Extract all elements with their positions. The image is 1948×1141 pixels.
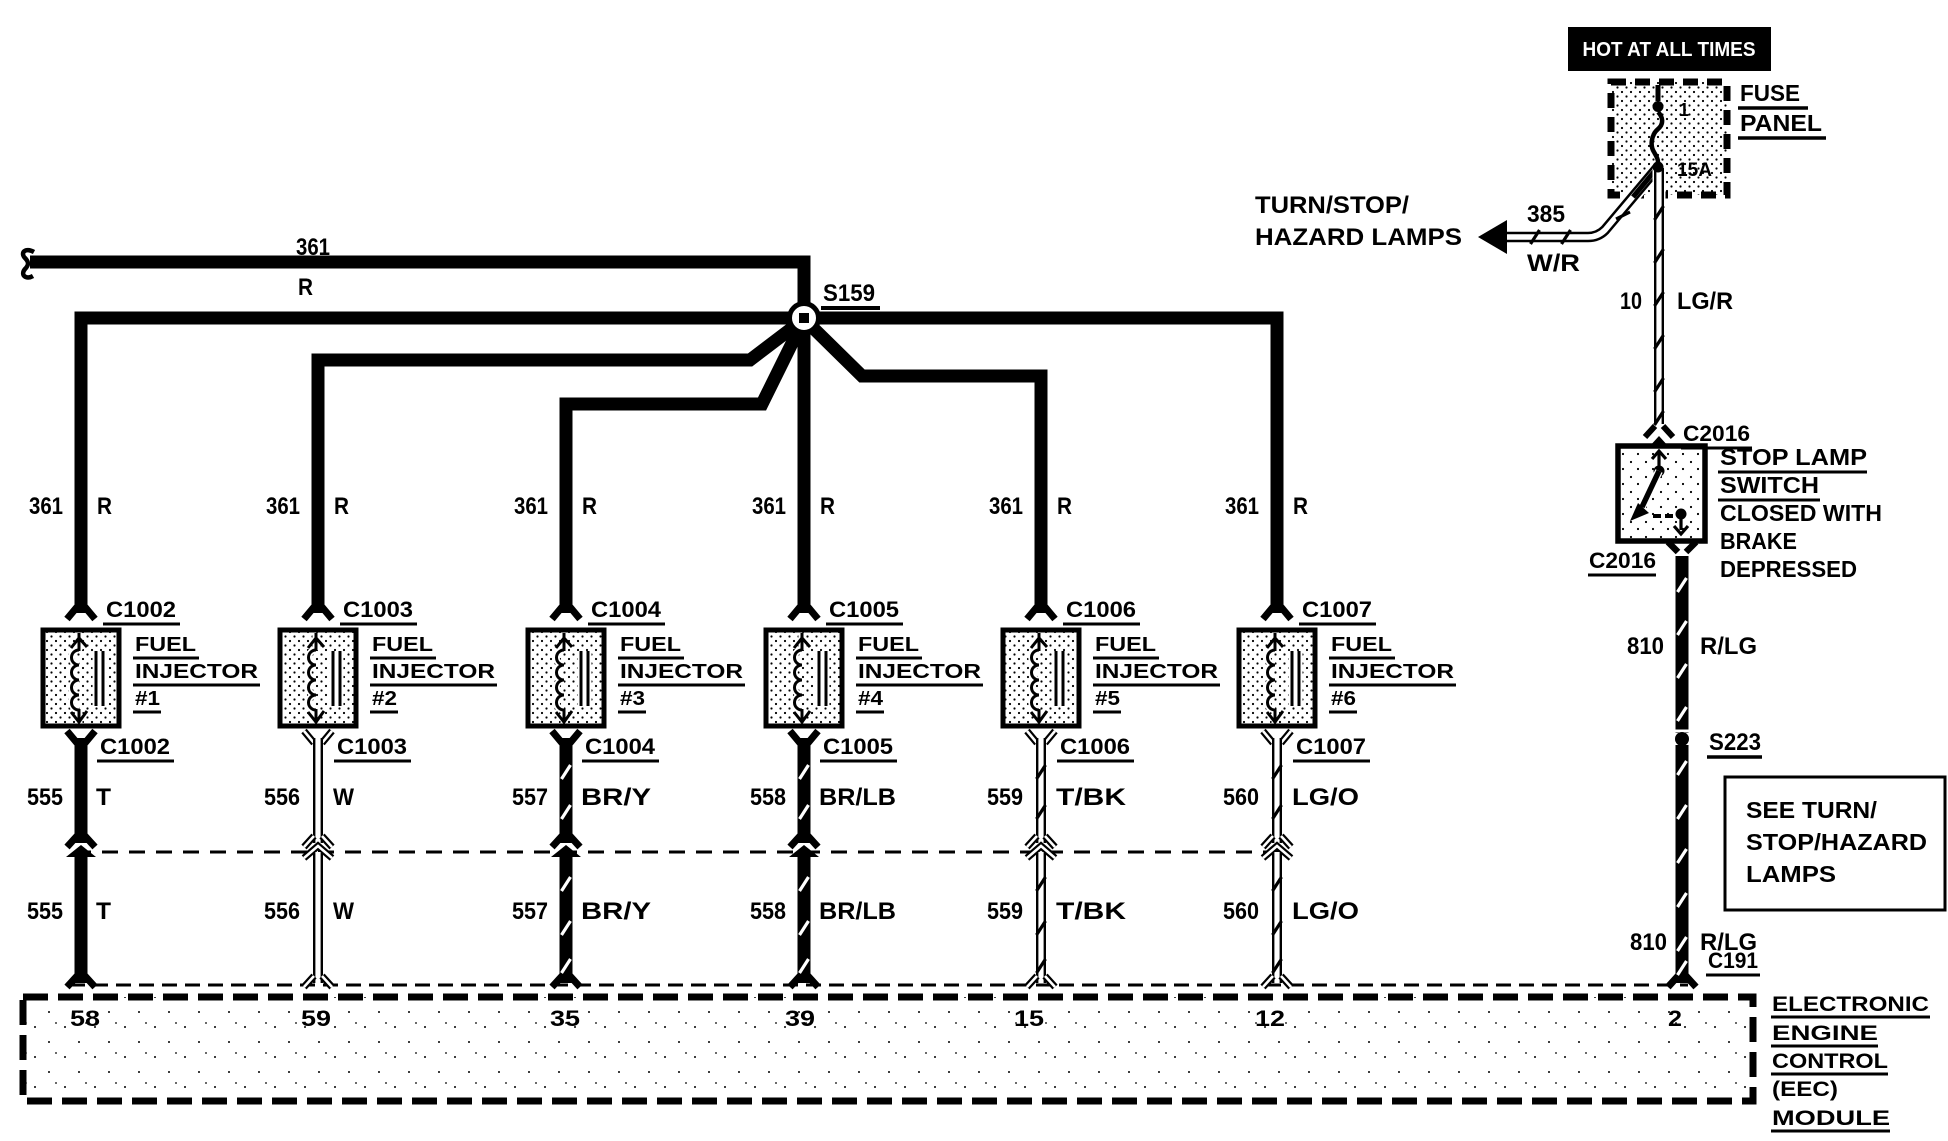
svg-text:C1006: C1006 — [1060, 734, 1130, 759]
label S223 — [1707, 729, 1762, 757]
label C2016 lower — [1588, 548, 1656, 575]
in-line connector upper half col 3 — [552, 836, 580, 847]
label 559 T/BK row1 — [987, 784, 1127, 811]
fuel injector #4 box — [766, 630, 842, 726]
svg-text:BRAKE: BRAKE — [1720, 528, 1797, 554]
splice node S159 — [790, 304, 819, 333]
svg-text:560: 560 — [1223, 898, 1259, 925]
svg-text:559: 559 — [987, 784, 1023, 811]
svg-text:58: 58 — [70, 1006, 100, 1031]
svg-text:INJECTOR: INJECTOR — [135, 661, 259, 683]
label C1003 bottom — [334, 734, 411, 761]
svg-text:#6: #6 — [1331, 688, 1356, 710]
svg-text:R: R — [334, 493, 349, 520]
connector C1007 top flare — [1263, 607, 1291, 619]
wire continuation squiggle — [23, 250, 34, 277]
svg-text:C191: C191 — [1708, 948, 1758, 973]
in-line connector upper half col 6 — [1263, 836, 1291, 847]
EEC pin 2 — [1668, 1006, 1682, 1031]
connector C1004 top flare — [552, 607, 580, 619]
wire 558 upper segment — [800, 738, 809, 843]
svg-text:HAZARD LAMPS: HAZARD LAMPS — [1255, 224, 1462, 251]
svg-text:C1007: C1007 — [1296, 734, 1366, 759]
label C1005 top — [826, 597, 903, 624]
svg-text:C1004: C1004 — [591, 597, 662, 622]
connector C1002 bottom flare — [67, 731, 95, 743]
label 557 BR/Y row1 — [512, 784, 651, 811]
wire 556 upper segment — [313, 738, 323, 843]
label C1006 bottom — [1057, 734, 1134, 761]
svg-text:BR/LB: BR/LB — [819, 898, 896, 925]
svg-text:2: 2 — [1668, 1006, 1682, 1031]
connector C1006 bottom flare — [1027, 731, 1055, 743]
in-line connector dashed line — [75, 851, 1285, 854]
wire 559 upper segment — [1037, 738, 1046, 843]
svg-text:#2: #2 — [372, 688, 397, 710]
wire 361 branch to injector 5 — [804, 319, 1041, 613]
in-line connector upper half col 2 — [304, 836, 332, 847]
svg-text:557: 557 — [512, 898, 548, 925]
svg-text:361: 361 — [266, 493, 300, 520]
svg-text:C1003: C1003 — [337, 734, 407, 759]
in-line connector lower half col 4 — [789, 845, 819, 857]
label FUEL INJECTOR #6 — [1329, 634, 1456, 712]
label C1002 top — [103, 597, 180, 624]
svg-text:555: 555 — [27, 784, 63, 811]
svg-text:385: 385 — [1527, 201, 1565, 228]
svg-text:361: 361 — [1225, 493, 1259, 520]
svg-text:C2016: C2016 — [1683, 421, 1750, 446]
svg-text:810: 810 — [1630, 929, 1667, 956]
label C1007 bottom — [1293, 734, 1370, 761]
svg-text:BR/Y: BR/Y — [581, 898, 651, 925]
wire 556 lower segment — [313, 852, 323, 983]
arrow to turn/stop lamps — [1478, 220, 1507, 254]
EEC pin 58 — [70, 1006, 100, 1031]
label C1005 bottom — [820, 734, 897, 761]
connector C2016 lower flare — [1668, 542, 1696, 552]
fuse panel box — [1611, 82, 1727, 195]
svg-text:556: 556 — [264, 898, 300, 925]
label FUEL INJECTOR #4 — [856, 634, 983, 712]
svg-text:R: R — [820, 493, 835, 520]
svg-text:ELECTRONIC: ELECTRONIC — [1772, 993, 1929, 1016]
wire 810 lower segment — [1678, 745, 1687, 983]
svg-text:ENGINE: ENGINE — [1772, 1022, 1878, 1045]
svg-text:C1002: C1002 — [106, 597, 176, 622]
in-line connector lower half col 1 — [66, 845, 96, 857]
svg-text:R: R — [298, 274, 313, 301]
stop lamp switch contacts — [1630, 451, 1688, 534]
svg-text:558: 558 — [750, 898, 786, 925]
svg-text:C1004: C1004 — [585, 734, 656, 759]
svg-text:FUSE: FUSE — [1740, 80, 1800, 106]
svg-text:C1003: C1003 — [343, 597, 413, 622]
label FUEL INJECTOR #3 — [618, 634, 745, 712]
EEC entry flare col 3 — [552, 976, 580, 987]
svg-text:C1005: C1005 — [823, 734, 893, 759]
svg-text:DEPRESSED: DEPRESSED — [1720, 556, 1857, 582]
svg-text:LG/R: LG/R — [1677, 288, 1733, 315]
label FUEL INJECTOR #5 — [1093, 634, 1220, 712]
svg-text:C1006: C1006 — [1066, 597, 1136, 622]
wire 560 upper segment — [1273, 738, 1282, 843]
svg-text:FUEL: FUEL — [135, 634, 196, 656]
svg-text:FUEL: FUEL — [1331, 634, 1392, 656]
wire 361 branch to injector 3 — [566, 319, 804, 613]
label 555 T row2 — [27, 898, 111, 925]
svg-text:C1002: C1002 — [100, 734, 170, 759]
connector C1007 bottom flare — [1263, 731, 1291, 743]
connector C1003 bottom flare — [304, 731, 332, 743]
wire 560 lower segment — [1273, 852, 1282, 983]
svg-text:R: R — [97, 493, 112, 520]
svg-text:556: 556 — [264, 784, 300, 811]
fuel injector #5 box — [1003, 630, 1079, 726]
svg-text:HOT AT ALL TIMES: HOT AT ALL TIMES — [1583, 39, 1756, 61]
wire 10 LG/R — [1655, 168, 1664, 425]
fuel injector #6 box — [1239, 630, 1315, 726]
svg-text:559: 559 — [987, 898, 1023, 925]
EEC entry flare col 6 — [1263, 976, 1291, 987]
svg-text:361: 361 — [29, 493, 63, 520]
in-line connector upper half col 4 — [790, 836, 818, 847]
svg-text:15: 15 — [1014, 1006, 1044, 1031]
connector C1004 bottom flare — [552, 731, 580, 743]
svg-text:INJECTOR: INJECTOR — [1095, 661, 1219, 683]
label STOP LAMP SWITCH CLOSED WITH BRAKE DEPRESSED — [1718, 444, 1882, 582]
svg-text:C1005: C1005 — [829, 597, 899, 622]
svg-text:T/BK: T/BK — [1056, 898, 1127, 925]
svg-text:LG/O: LG/O — [1292, 898, 1359, 925]
svg-text:TURN/STOP/: TURN/STOP/ — [1255, 192, 1409, 219]
svg-text:SEE TURN/: SEE TURN/ — [1746, 797, 1878, 823]
svg-text:361: 361 — [296, 234, 330, 261]
connector C1006 top flare — [1027, 607, 1055, 619]
svg-text:BR/LB: BR/LB — [819, 784, 896, 811]
stop lamp switch box — [1618, 446, 1705, 541]
svg-text:R: R — [1057, 493, 1072, 520]
svg-text:59: 59 — [301, 1006, 331, 1031]
wire 555 upper segment — [75, 738, 88, 843]
splice S223 — [1675, 731, 1689, 747]
label 560 LG/O row2 — [1223, 898, 1359, 925]
svg-text:INJECTOR: INJECTOR — [620, 661, 744, 683]
svg-text:FUEL: FUEL — [1095, 634, 1156, 656]
wire 559 lower segment — [1037, 852, 1046, 983]
svg-text:555: 555 — [27, 898, 63, 925]
svg-text:R: R — [1293, 493, 1308, 520]
svg-text:FUEL: FUEL — [620, 634, 681, 656]
label S159 — [821, 280, 880, 308]
label C1002 bottom — [97, 734, 174, 761]
wire 361 bus to injectors 1 and 6 — [81, 318, 1277, 613]
label C1003 top — [340, 597, 417, 624]
fuse element — [1652, 85, 1664, 173]
svg-text:10: 10 — [1620, 288, 1642, 315]
EEC entry flare col 4 — [790, 976, 818, 987]
fuel injector #2 box — [280, 630, 356, 726]
wire 361 branch to injector 4 — [798, 319, 811, 613]
EEC pin 59 — [301, 1006, 331, 1031]
EEC pin 39 — [785, 1006, 815, 1031]
EEC module box — [23, 997, 1753, 1101]
svg-text:MODULE: MODULE — [1772, 1107, 1890, 1130]
EEC entry flare col 1 — [67, 976, 95, 987]
svg-text:SWITCH: SWITCH — [1720, 472, 1819, 498]
label 556 W row2 — [264, 898, 354, 925]
svg-text:T: T — [96, 784, 111, 811]
svg-text:C2016: C2016 — [1589, 548, 1656, 573]
svg-text:558: 558 — [750, 784, 786, 811]
svg-text:R: R — [582, 493, 597, 520]
fuel injector #1 box — [43, 630, 119, 726]
svg-text:W/R: W/R — [1527, 250, 1580, 277]
EEC pin 35 — [550, 1006, 580, 1031]
see turn/stop/hazard lamps note box — [1725, 777, 1945, 910]
svg-text:CLOSED WITH: CLOSED WITH — [1720, 500, 1882, 526]
connector C1005 top flare — [790, 607, 818, 619]
svg-text:39: 39 — [785, 1006, 815, 1031]
label 558 BR/LB row1 — [750, 784, 896, 811]
svg-text:W: W — [333, 784, 354, 811]
EEC entry flare col 2 — [304, 976, 332, 987]
label C2016 upper — [1681, 421, 1752, 448]
svg-text:(EEC): (EEC) — [1772, 1078, 1838, 1101]
connector C2016 upper — [1645, 426, 1673, 447]
svg-text:361: 361 — [989, 493, 1023, 520]
svg-text:LAMPS: LAMPS — [1746, 861, 1836, 887]
svg-text:PANEL: PANEL — [1740, 110, 1822, 136]
svg-text:810: 810 — [1627, 633, 1664, 660]
wire 557 lower segment — [562, 852, 571, 983]
svg-text:CONTROL: CONTROL — [1772, 1050, 1888, 1073]
fuel injector #3 box — [528, 630, 604, 726]
svg-text:15A: 15A — [1677, 160, 1712, 181]
connector C1002 top flare — [67, 607, 95, 619]
wire 361 feed (top horizontal) — [30, 262, 804, 318]
svg-text:STOP/HAZARD: STOP/HAZARD — [1746, 829, 1927, 855]
svg-text:INJECTOR: INJECTOR — [1331, 661, 1455, 683]
svg-text:S223: S223 — [1709, 729, 1761, 756]
label FUEL INJECTOR #2 — [370, 634, 497, 712]
in-line connector lower half col 2 — [304, 846, 332, 858]
label FUSE PANEL — [1738, 80, 1826, 138]
in-line connector lower half col 3 — [551, 845, 581, 857]
label C191 — [1706, 948, 1760, 975]
EEC pin 12 — [1255, 1006, 1285, 1031]
svg-text:#1: #1 — [135, 688, 160, 710]
label C1007 top — [1299, 597, 1376, 624]
label C1006 top — [1063, 597, 1140, 624]
svg-text:361: 361 — [752, 493, 786, 520]
svg-text:560: 560 — [1223, 784, 1259, 811]
EEC module label — [1771, 993, 1930, 1131]
svg-text:12: 12 — [1255, 1006, 1285, 1031]
in-line connector upper half col 1 — [67, 836, 95, 847]
label 556 W row1 — [264, 784, 354, 811]
svg-text:W: W — [333, 898, 354, 925]
svg-text:FUEL: FUEL — [858, 634, 919, 656]
svg-text:361: 361 — [514, 493, 548, 520]
svg-text:#5: #5 — [1095, 688, 1120, 710]
wire 810 upper segment — [1678, 556, 1687, 733]
svg-text:#3: #3 — [620, 688, 645, 710]
svg-text:FUEL: FUEL — [372, 634, 433, 656]
label 557 BR/Y row2 — [512, 898, 651, 925]
connector C1003 top flare — [304, 607, 332, 619]
svg-text:INJECTOR: INJECTOR — [858, 661, 982, 683]
in-line connector lower half col 6 — [1263, 846, 1291, 858]
svg-text:T: T — [96, 898, 111, 925]
wire 555 lower segment — [75, 852, 88, 983]
EEC pin 15 — [1014, 1006, 1044, 1031]
svg-text:557: 557 — [512, 784, 548, 811]
svg-text:35: 35 — [550, 1006, 580, 1031]
wire 557 upper segment — [562, 738, 571, 843]
HOT AT ALL TIMES box — [1568, 27, 1771, 71]
svg-text:LG/O: LG/O — [1292, 784, 1359, 811]
svg-text:T/BK: T/BK — [1056, 784, 1127, 811]
connector C191 dashed line — [70, 984, 1688, 987]
EEC entry flare col 5 — [1027, 976, 1055, 987]
wire 558 lower segment — [800, 852, 809, 983]
svg-text:BR/Y: BR/Y — [581, 784, 651, 811]
label FUEL INJECTOR #1 — [133, 634, 260, 712]
in-line connector lower half col 5 — [1027, 846, 1055, 858]
connector C1005 bottom flare — [790, 731, 818, 743]
label 560 LG/O row1 — [1223, 784, 1359, 811]
svg-text:R/LG: R/LG — [1700, 633, 1757, 660]
wire 361 branch to injector 2 — [318, 319, 804, 613]
label TURN/STOP/ HAZARD LAMPS — [1255, 192, 1462, 251]
svg-text:C1007: C1007 — [1302, 597, 1372, 622]
svg-text:1: 1 — [1679, 100, 1689, 120]
label 559 T/BK row2 — [987, 898, 1127, 925]
label C1004 bottom — [582, 734, 659, 761]
in-line connector upper half col 5 — [1027, 836, 1055, 847]
label 558 BR/LB row2 — [750, 898, 896, 925]
label 555 T row1 — [27, 784, 111, 811]
svg-text:STOP LAMP: STOP LAMP — [1720, 444, 1867, 470]
wire 385 W/R — [1505, 167, 1658, 244]
svg-text:#4: #4 — [858, 688, 884, 710]
svg-text:INJECTOR: INJECTOR — [372, 661, 496, 683]
connector C191 flare — [1668, 976, 1696, 987]
label C1004 top — [588, 597, 665, 624]
svg-text:S159: S159 — [823, 280, 875, 307]
